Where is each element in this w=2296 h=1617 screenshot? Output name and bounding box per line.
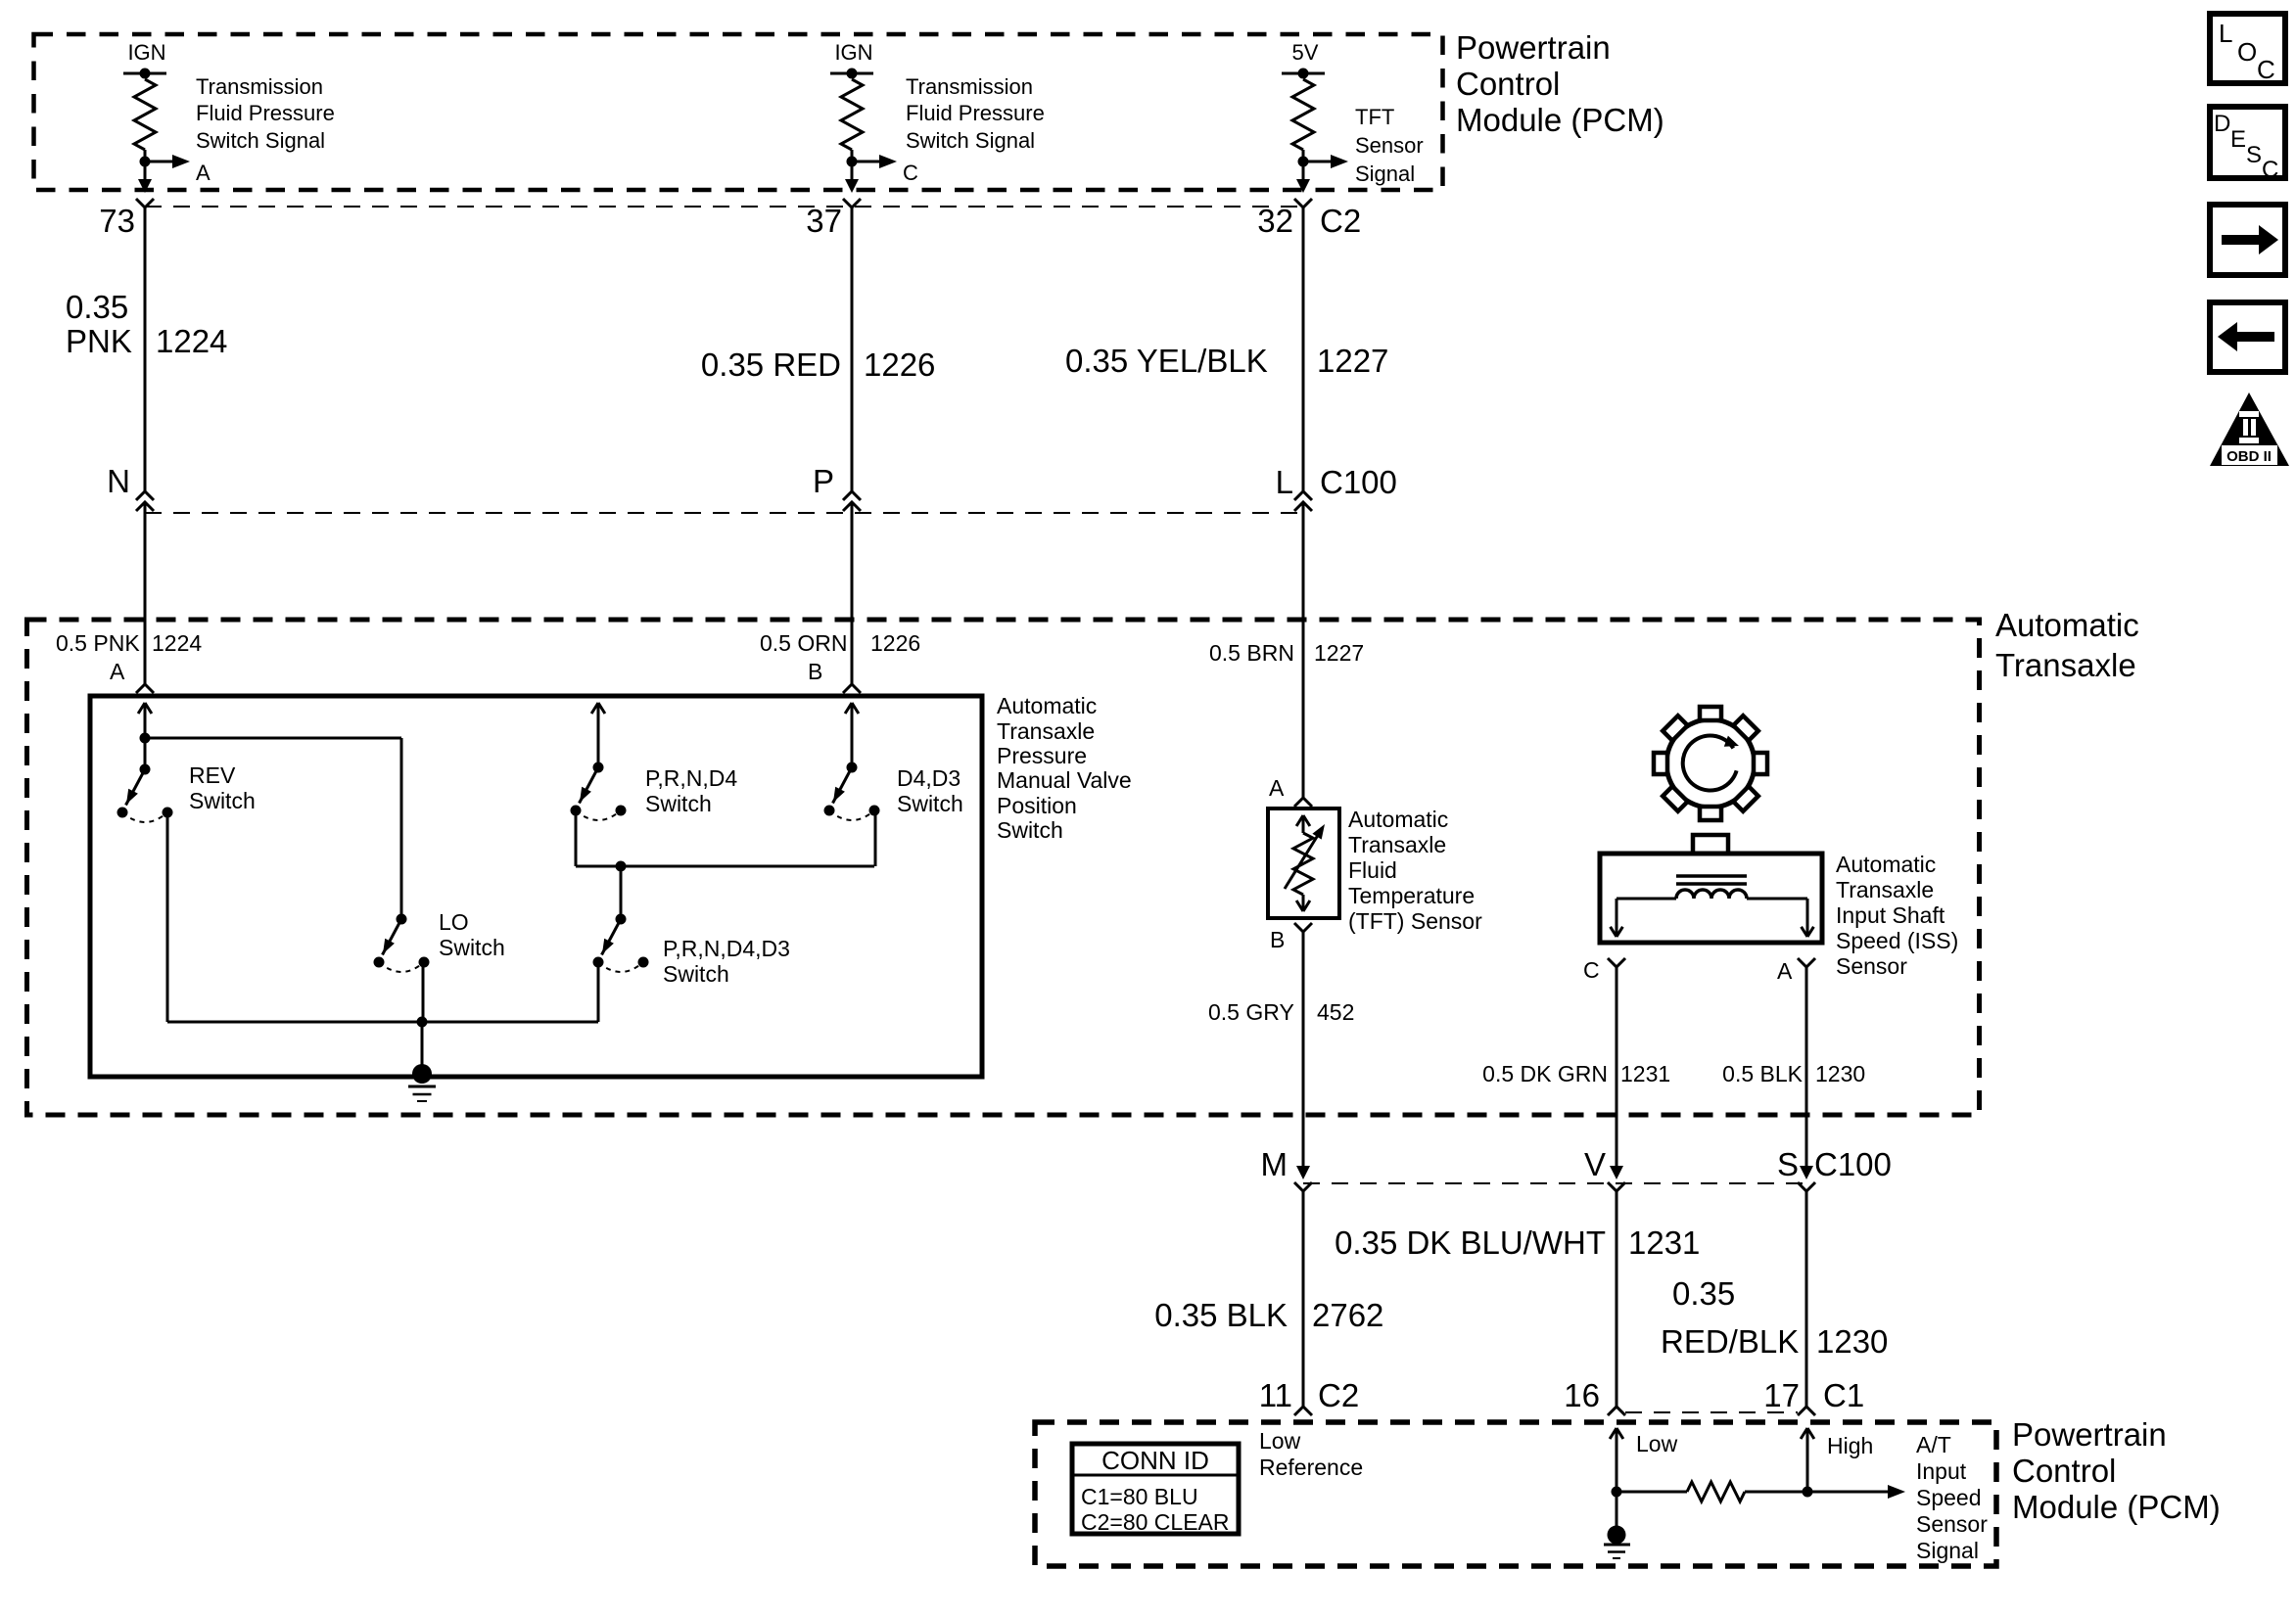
- connector pin L (C100): [1276, 464, 1312, 511]
- svg-text:1230: 1230: [1815, 1061, 1865, 1086]
- svg-text:1227: 1227: [1314, 640, 1364, 666]
- connector pin 37 (C2): [806, 199, 861, 239]
- svg-text:0.5 PNK: 0.5 PNK: [56, 630, 140, 656]
- svg-text:Low: Low: [1636, 1431, 1678, 1456]
- wire 452 (0.5 GRY) segment: [1302, 932, 1305, 1175]
- svg-text:0.35 BLK: 0.35 BLK: [1154, 1297, 1288, 1333]
- wire branch to LO switch: [400, 738, 403, 919]
- svg-text:Sensor: Sensor: [1836, 953, 1907, 979]
- connector pin 17 (C1): [1763, 1377, 1815, 1415]
- svg-text:5V: 5V: [1292, 40, 1319, 65]
- svg-text:C2: C2: [1318, 1377, 1359, 1413]
- node junction at 431,1044: [417, 1017, 428, 1028]
- label 0.5 BRN 1227: [1209, 640, 1364, 666]
- svg-text:C: C: [903, 161, 918, 185]
- icon next-arrow box: [2210, 205, 2285, 275]
- svg-text:CONN ID: CONN ID: [1101, 1446, 1209, 1475]
- node junction high: [1803, 1487, 1813, 1498]
- svg-text:B: B: [808, 659, 822, 684]
- pin A (TFT sensor): [1269, 775, 1312, 807]
- PCM module box (top): [34, 34, 1443, 190]
- svg-text:Module (PCM): Module (PCM): [2012, 1489, 2221, 1525]
- svg-text:0.35 YEL/BLK: 0.35 YEL/BLK: [1065, 343, 1268, 379]
- wire 1227 (0.35 YEL/BLK) segment: [1302, 208, 1305, 491]
- svg-text:Transmission: Transmission: [906, 74, 1033, 99]
- connector C2 dashed line (top): [145, 206, 1303, 208]
- label 0.5 PNK 1224: [56, 630, 202, 656]
- wire P,R,N,D4 contact down: [575, 810, 578, 866]
- wire low to resistor: [1617, 1491, 1687, 1494]
- svg-text:Fluid Pressure: Fluid Pressure: [906, 101, 1045, 125]
- svg-text:Switch: Switch: [897, 791, 963, 816]
- connector pin 16 (C1): [1564, 1377, 1625, 1415]
- Automatic Transaxle box: [27, 620, 1980, 1115]
- svg-text:Automatic: Automatic: [997, 693, 1097, 718]
- wire A entry arrow (into switch box): [138, 703, 152, 769]
- ground (PCM internal): [1604, 1526, 1630, 1559]
- svg-text:A: A: [1777, 958, 1793, 984]
- svg-text:Control: Control: [2012, 1453, 2116, 1489]
- svg-text:REV: REV: [189, 762, 236, 788]
- label TFT Sensor Signal: [1355, 105, 1424, 186]
- connector pin N (C100): [107, 463, 154, 511]
- svg-text:1226: 1226: [870, 630, 920, 656]
- icon LOC box: [2210, 14, 2285, 84]
- switch LO: [374, 914, 430, 973]
- connector C1 dashed line: [1625, 1411, 1798, 1413]
- node junction low/ground: [1612, 1487, 1622, 1498]
- label A/T Input Speed Sensor Signal: [1916, 1432, 1988, 1563]
- svg-text:A/T: A/T: [1916, 1432, 1951, 1457]
- label C100: [1320, 464, 1397, 500]
- svg-text:M: M: [1261, 1146, 1289, 1182]
- svg-text:OBD II: OBD II: [2226, 448, 2272, 465]
- svg-text:Transaxle: Transaxle: [1348, 832, 1446, 857]
- svg-text:0.5 GRY: 0.5 GRY: [1208, 999, 1294, 1025]
- wire D4,D3 contact down: [874, 810, 877, 866]
- wire 1224 (0.35 PNK) segment: [144, 208, 147, 491]
- label Low (PCM): [1636, 1431, 1678, 1456]
- TFT sensor box: [1268, 808, 1339, 918]
- wire to ground: [421, 1022, 424, 1067]
- pin A (transaxle case connector): [110, 659, 154, 693]
- wire 1231 (0.5 DK GRN) segment: [1616, 967, 1618, 1175]
- svg-text:Transmission: Transmission: [196, 74, 323, 99]
- svg-text:Speed: Speed: [1916, 1485, 1982, 1510]
- icon prev-arrow box: [2210, 302, 2285, 372]
- label REV Switch: [189, 762, 256, 813]
- label 0.5 ORN 1226: [760, 630, 920, 656]
- svg-text:Automatic: Automatic: [1836, 852, 1936, 877]
- svg-text:IGN: IGN: [834, 40, 872, 65]
- ISS coil right lead: [1747, 899, 1813, 937]
- resistor R4 (ISS input termination): [1687, 1482, 1745, 1501]
- pin B (transaxle case connector): [808, 659, 861, 693]
- wire P,R,N,D4,D3 contact down: [597, 962, 600, 1022]
- svg-text:Reference: Reference: [1259, 1455, 1363, 1480]
- svg-text:D: D: [2214, 111, 2230, 137]
- svg-text:2762: 2762: [1312, 1297, 1383, 1333]
- ISS coil left lead: [1611, 899, 1676, 937]
- Automatic Transaxle Pressure Manual Valve Position Switch box: [90, 696, 982, 1077]
- label LO Switch: [439, 909, 505, 960]
- switch P,R,N,D4: [571, 762, 627, 821]
- svg-text:V: V: [1584, 1146, 1606, 1182]
- pin B (TFT sensor): [1270, 923, 1312, 952]
- connector pin 11 (C2): [1259, 1377, 1312, 1415]
- label Powertrain Control Module (PCM) bottom: [2012, 1416, 2221, 1525]
- connector pin S (C100): [1777, 1146, 1815, 1191]
- svg-text:L: L: [1276, 464, 1293, 500]
- label Automatic Transaxle Input Shaft Speed (ISS) Sensor: [1836, 852, 1958, 979]
- wire 1231 (0.35 DK BLU/WHT) segment: [1616, 1191, 1618, 1407]
- label 0.35 DK BLU/WHT 1231: [1335, 1224, 1700, 1261]
- svg-text:C2=80 CLEAR: C2=80 CLEAR: [1081, 1509, 1230, 1535]
- resistor R3 (TFT sensor pull-up, pin 32) with 5V feed: [1282, 40, 1348, 193]
- svg-text:Switch: Switch: [645, 791, 712, 816]
- label D4,D3 Switch: [897, 765, 963, 816]
- label 0.35 RED 1226: [701, 346, 936, 383]
- wire P,R,N,D4 up arrow: [591, 703, 605, 767]
- svg-text:Powertrain: Powertrain: [2012, 1416, 2167, 1453]
- svg-text:Switch Signal: Switch Signal: [196, 128, 325, 153]
- svg-text:Low: Low: [1259, 1428, 1301, 1454]
- PCM module box (bottom): [1035, 1422, 1996, 1566]
- ground (switch box case): [408, 1064, 436, 1101]
- svg-text:0.5 DK GRN: 0.5 DK GRN: [1482, 1061, 1608, 1086]
- svg-text:B: B: [1270, 927, 1285, 952]
- label 0.35 PNK 1224: [66, 289, 227, 359]
- connector pin V (C100): [1584, 1146, 1625, 1191]
- svg-text:Pressure: Pressure: [997, 743, 1087, 768]
- label 0.5 DK GRN 1231: [1482, 1061, 1670, 1086]
- PCM low input arrow: [1610, 1428, 1623, 1492]
- wire to A/T input speed sensor signal arrow: [1807, 1485, 1905, 1499]
- inductor L1 (ISS pickup coil): [1676, 890, 1747, 899]
- svg-text:32: 32: [1257, 203, 1293, 239]
- svg-text:IGN: IGN: [127, 40, 165, 65]
- icon DESC box: [2210, 107, 2285, 183]
- svg-text:Transaxle: Transaxle: [1836, 877, 1934, 902]
- svg-text:P,R,N,D4,D3: P,R,N,D4,D3: [663, 936, 790, 961]
- wire bus (bottom, y=1044): [167, 1021, 598, 1024]
- svg-text:RED/BLK: RED/BLK: [1661, 1323, 1799, 1360]
- label C100 (bottom): [1814, 1146, 1892, 1182]
- svg-text:(TFT) Sensor: (TFT) Sensor: [1348, 908, 1482, 934]
- svg-text:P: P: [813, 463, 834, 499]
- connector C100 dashed line (top): [145, 512, 1303, 514]
- svg-text:O: O: [2237, 37, 2257, 67]
- svg-text:Switch: Switch: [439, 935, 505, 960]
- svg-text:17: 17: [1763, 1377, 1800, 1413]
- svg-text:1224: 1224: [156, 323, 227, 359]
- svg-text:A: A: [110, 659, 125, 684]
- ISS reluctor gear icon: [1654, 707, 1767, 820]
- switch REV: [117, 764, 173, 823]
- svg-text:Position: Position: [997, 793, 1077, 818]
- wire resistor to high node: [1745, 1491, 1807, 1494]
- label Powertrain Control Module (PCM) top: [1456, 29, 1664, 138]
- wire 2762 (0.35 BLK) segment: [1302, 1191, 1305, 1407]
- svg-text:Sensor: Sensor: [1355, 133, 1424, 158]
- svg-text:Input Shaft: Input Shaft: [1836, 902, 1945, 928]
- icon OBD II triangle: [2210, 393, 2289, 466]
- ISS sensor terminal: [1693, 835, 1728, 854]
- PCM high input arrow: [1801, 1428, 1814, 1492]
- svg-text:C2: C2: [1320, 203, 1361, 239]
- svg-text:PNK: PNK: [66, 323, 132, 359]
- svg-text:0.35: 0.35: [66, 289, 128, 325]
- svg-text:73: 73: [99, 203, 135, 239]
- svg-text:Switch: Switch: [189, 788, 256, 813]
- wire B entry arrow (into switch box): [845, 703, 859, 767]
- label Transmission Fluid Pressure Switch Signal / pin C: [903, 74, 1045, 185]
- svg-text:N: N: [107, 463, 130, 499]
- label 0.5 GRY 452: [1208, 999, 1354, 1025]
- svg-text:Control: Control: [1456, 66, 1560, 102]
- svg-text:1231: 1231: [1620, 1061, 1670, 1086]
- svg-text:Signal: Signal: [1355, 162, 1415, 186]
- label 0.35 YEL/BLK 1227: [1065, 343, 1388, 379]
- svg-text:0.5 BLK: 0.5 BLK: [1722, 1061, 1803, 1086]
- svg-text:C100: C100: [1320, 464, 1397, 500]
- svg-text:0.5 BRN: 0.5 BRN: [1209, 640, 1294, 666]
- connector pin 73 (C2): [99, 199, 154, 239]
- pin A (ISS sensor): [1777, 958, 1815, 984]
- svg-text:1226: 1226: [864, 346, 935, 383]
- svg-text:1231: 1231: [1628, 1224, 1700, 1261]
- svg-text:0.35: 0.35: [1672, 1275, 1735, 1312]
- svg-text:LO: LO: [439, 909, 469, 935]
- wire 1226 (0.5 ORN) segment: [851, 502, 854, 684]
- label Automatic Transaxle Pressure Manual Valve Position Switch: [997, 693, 1132, 843]
- node junction A branch: [140, 733, 402, 744]
- svg-text:C: C: [2257, 55, 2275, 84]
- connector pin 32 (C2): [1257, 199, 1312, 239]
- svg-text:Temperature: Temperature: [1348, 883, 1475, 908]
- svg-text:Switch: Switch: [663, 961, 729, 987]
- svg-text:C: C: [2262, 157, 2278, 183]
- svg-text:L: L: [2219, 19, 2232, 48]
- svg-text:Sensor: Sensor: [1916, 1511, 1988, 1537]
- wire REV NC contact down: [166, 812, 169, 1022]
- svg-text:D4,D3: D4,D3: [897, 765, 961, 791]
- pin C (ISS sensor): [1583, 957, 1625, 983]
- svg-text:0.5 ORN: 0.5 ORN: [760, 630, 847, 656]
- svg-text:452: 452: [1317, 999, 1354, 1025]
- thermistor RT (TFT) symbol: [1285, 815, 1325, 911]
- svg-text:C100: C100: [1814, 1146, 1892, 1182]
- svg-text:16: 16: [1564, 1377, 1600, 1413]
- label 0.35 RED/BLK 1230: [1661, 1275, 1888, 1360]
- wire bus (switch commons, y=885): [576, 865, 874, 868]
- label C2: [1320, 203, 1361, 239]
- svg-text:Transaxle: Transaxle: [1995, 647, 2136, 683]
- svg-text:Powertrain: Powertrain: [1456, 29, 1611, 66]
- label High (PCM): [1827, 1433, 1873, 1458]
- svg-text:Fluid: Fluid: [1348, 857, 1397, 883]
- svg-text:1224: 1224: [152, 630, 202, 656]
- svg-text:11: 11: [1259, 1377, 1292, 1413]
- label Automatic Transaxle: [1995, 607, 2139, 683]
- svg-text:Signal: Signal: [1916, 1538, 1979, 1563]
- label 0.5 BLK 1230: [1722, 1061, 1865, 1086]
- svg-text:Speed (ISS): Speed (ISS): [1836, 928, 1958, 953]
- connector pin M (C100): [1261, 1146, 1313, 1191]
- svg-text:Module (PCM): Module (PCM): [1456, 102, 1664, 138]
- svg-text:S: S: [2246, 142, 2262, 168]
- svg-text:Automatic: Automatic: [1995, 607, 2139, 643]
- wire low node to ground: [1616, 1492, 1618, 1527]
- switch D4,D3: [824, 762, 880, 821]
- svg-text:Transaxle: Transaxle: [997, 718, 1095, 744]
- ISS pickup core lines: [1676, 876, 1747, 884]
- switch P,R,N,D4,D3: [593, 914, 649, 973]
- label Automatic Transaxle Fluid Temperature (TFT) Sensor: [1348, 807, 1482, 934]
- wire 1230 (0.5 BLK) segment: [1805, 967, 1808, 1175]
- label C2 (bottom): [1318, 1377, 1359, 1413]
- svg-text:Switch: Switch: [997, 817, 1063, 843]
- svg-text:Automatic: Automatic: [1348, 807, 1448, 832]
- connector pin P (C100): [813, 463, 861, 511]
- svg-text:A: A: [1269, 775, 1285, 801]
- svg-text:Switch Signal: Switch Signal: [906, 128, 1035, 153]
- svg-text:37: 37: [806, 203, 842, 239]
- svg-text:High: High: [1827, 1433, 1873, 1458]
- label Transmission Fluid Pressure Switch Signal / pin A: [196, 74, 335, 185]
- resistor R1 (TFP switch signal pull-up, pin 73) with IGN feed: [123, 40, 190, 193]
- svg-text:Fluid Pressure: Fluid Pressure: [196, 101, 335, 125]
- svg-text:C1: C1: [1823, 1377, 1864, 1413]
- connector C100 dashed line (bottom): [1303, 1182, 1806, 1184]
- svg-text:0.35 RED: 0.35 RED: [701, 346, 841, 383]
- label 0.35 BLK 2762: [1154, 1297, 1383, 1333]
- node junction at 634,885: [616, 861, 627, 920]
- wire LO contact down: [422, 962, 425, 1022]
- wire 1226 (0.35 RED) segment: [851, 208, 854, 491]
- svg-text:C: C: [1583, 957, 1600, 983]
- resistor R2 (TFP switch signal pull-up, pin 37) with IGN feed: [830, 40, 897, 193]
- wire 1230 (0.35 RED/BLK) segment: [1805, 1191, 1808, 1407]
- svg-text:S: S: [1777, 1146, 1799, 1182]
- CONN ID table: [1072, 1444, 1239, 1535]
- svg-text:1230: 1230: [1816, 1323, 1888, 1360]
- wire 1227 (0.5 BRN) segment: [1302, 502, 1305, 798]
- svg-text:1227: 1227: [1317, 343, 1388, 379]
- label Low Reference: [1259, 1428, 1363, 1480]
- svg-text:A: A: [196, 161, 211, 185]
- label P,R,N,D4,D3 Switch: [663, 936, 790, 987]
- label C1: [1823, 1377, 1864, 1413]
- svg-text:Manual Valve: Manual Valve: [997, 767, 1132, 793]
- svg-text:C1=80 BLU: C1=80 BLU: [1081, 1484, 1198, 1509]
- svg-text:Input: Input: [1916, 1458, 1967, 1484]
- svg-text:P,R,N,D4: P,R,N,D4: [645, 765, 737, 791]
- svg-text:0.35 DK BLU/WHT: 0.35 DK BLU/WHT: [1335, 1224, 1606, 1261]
- svg-text:TFT: TFT: [1355, 105, 1394, 129]
- label P,R,N,D4 Switch: [645, 765, 737, 816]
- ISS sensor box: [1600, 854, 1822, 943]
- wire 1224 (0.5 PNK) segment: [144, 502, 147, 684]
- svg-text:E: E: [2230, 126, 2246, 153]
